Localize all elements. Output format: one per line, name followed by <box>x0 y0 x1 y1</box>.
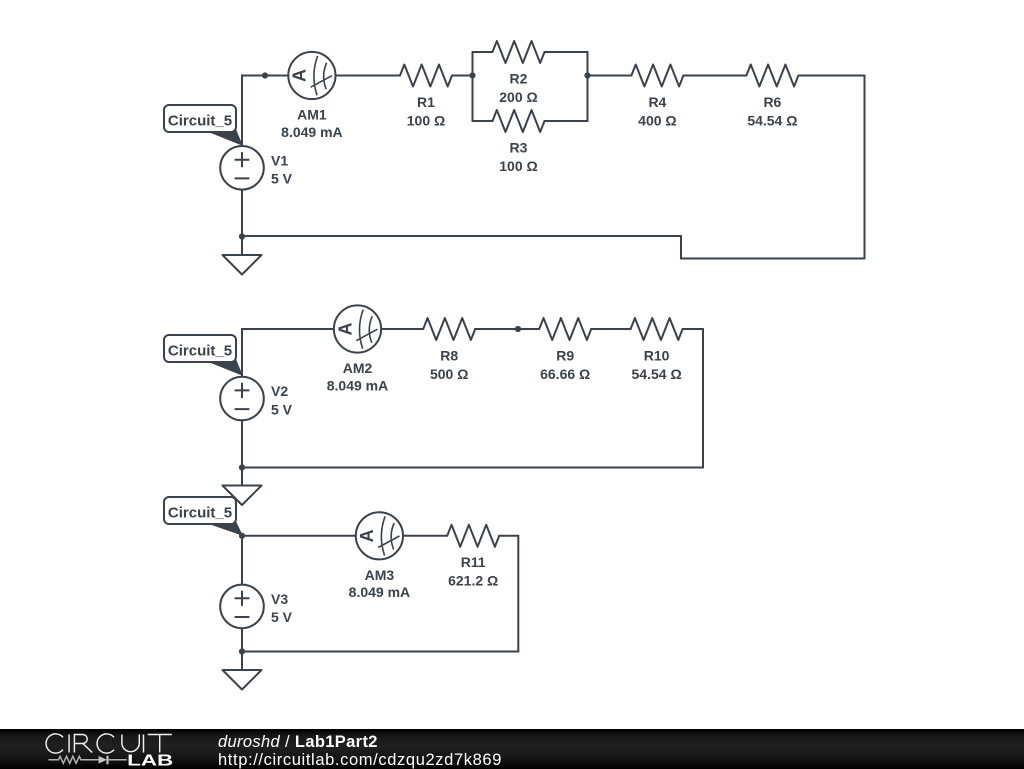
svg-text:54.54 Ω: 54.54 Ω <box>747 112 797 128</box>
svg-text:500 Ω: 500 Ω <box>430 366 468 382</box>
wire AM2 to R8 <box>382 328 423 330</box>
resistor R10 <box>631 318 683 340</box>
footer bar <box>0 729 1024 769</box>
junction node Circuit_5 (c1) <box>262 72 268 78</box>
svg-text:621.2 Ω: 621.2 Ω <box>448 573 498 589</box>
wire R8 to R9 <box>475 328 539 330</box>
svg-text:Circuit_5: Circuit_5 <box>168 504 232 521</box>
logo word CIRCUIT (drawn) <box>46 733 172 752</box>
ground 2 <box>223 486 262 506</box>
svg-text:R11: R11 <box>461 554 486 570</box>
ground 1 <box>223 255 262 275</box>
junction node Circuit_5 (c3) <box>239 533 245 539</box>
svg-text:AM1: AM1 <box>297 107 327 123</box>
svg-text:R3: R3 <box>510 139 528 155</box>
CircuitLab logo <box>0 729 200 769</box>
wire left branch vertical <box>472 52 474 121</box>
svg-text:R8: R8 <box>440 347 458 363</box>
wire R2 right <box>545 51 588 53</box>
wire right side down (c3) <box>517 536 519 652</box>
wire node to AM3 <box>242 535 356 537</box>
wire AM1 to R1 <box>336 75 400 77</box>
wire bottom return to V1 <box>242 235 681 237</box>
svg-text:AM2: AM2 <box>343 360 373 376</box>
ground 3 <box>223 670 262 690</box>
svg-text:A: A <box>335 323 355 336</box>
svg-text:R10: R10 <box>644 347 670 363</box>
svg-text:200 Ω: 200 Ω <box>499 89 537 105</box>
wire R9 to R10 <box>591 328 630 330</box>
voltage source V1 <box>220 146 264 190</box>
junction left parallel node <box>469 72 475 78</box>
voltage source V2 <box>220 377 264 421</box>
svg-text:R9: R9 <box>556 347 574 363</box>
resistor R2 <box>493 41 545 63</box>
svg-text:400 Ω: 400 Ω <box>638 112 676 128</box>
svg-text:100 Ω: 100 Ω <box>499 158 537 174</box>
net flag Circuit_5 (1) <box>164 105 242 145</box>
wire V2 top to AM2 <box>242 329 334 377</box>
wire right side down (c2) <box>702 329 704 468</box>
resistor R3 <box>493 110 545 132</box>
wire R10 to right corner <box>683 328 703 330</box>
svg-text:LAB: LAB <box>127 752 173 768</box>
svg-text:A: A <box>290 69 310 82</box>
ammeter AM3 <box>356 512 403 559</box>
wire R6 to right corner <box>798 75 864 77</box>
svg-text:54.54 Ω: 54.54 Ω <box>632 366 682 382</box>
net flag Circuit_5 (2) <box>164 335 242 375</box>
ammeter AM1 <box>288 52 335 99</box>
wire R11 to right corner <box>499 535 518 537</box>
svg-text:100 Ω: 100 Ω <box>407 112 445 128</box>
wire to R3 left <box>473 120 493 122</box>
wire right side down <box>864 76 866 259</box>
wire to R2 left <box>473 51 493 53</box>
voltage source V3 <box>220 585 264 629</box>
svg-text:R1: R1 <box>417 94 435 110</box>
ammeter AM2 <box>334 305 381 352</box>
resistor R9 <box>539 318 591 340</box>
net flag Circuit_5 (3) <box>164 497 242 535</box>
wire R4 to R6 <box>683 75 746 77</box>
svg-text:V2: V2 <box>271 383 288 399</box>
resistor R1 <box>400 65 452 87</box>
wire R1 to parallel node <box>452 75 473 77</box>
junction R8-R9 node <box>515 326 521 332</box>
wire R3 right <box>545 120 588 122</box>
logo resistor-diode symbol <box>48 756 126 763</box>
wire bottom return (c2) <box>242 467 703 469</box>
svg-text:AM3: AM3 <box>365 567 395 583</box>
svg-text:Circuit_5: Circuit_5 <box>168 342 232 359</box>
svg-text:66.66 Ω: 66.66 Ω <box>540 366 590 382</box>
svg-text:V3: V3 <box>271 591 288 607</box>
svg-text:8.049 mA: 8.049 mA <box>327 377 388 393</box>
wire bottom return (c3) <box>242 651 518 653</box>
wire bottom jog up <box>680 236 682 259</box>
wire V3 bottom to ground <box>241 628 243 670</box>
footer url <box>218 750 502 769</box>
svg-text:R4: R4 <box>648 94 666 110</box>
wire V2 bottom to ground <box>241 421 243 486</box>
svg-text:8.049 mA: 8.049 mA <box>349 584 410 600</box>
junction V2 ground node <box>239 464 245 470</box>
junction right parallel node <box>584 72 590 78</box>
svg-text:A: A <box>357 529 377 542</box>
svg-text:5 V: 5 V <box>271 401 293 417</box>
wire V1 bottom to ground <box>241 190 243 255</box>
resistor R8 <box>423 318 475 340</box>
wire right branch vertical <box>587 52 589 121</box>
svg-text:V1: V1 <box>271 152 288 168</box>
wire node to R4 <box>588 75 632 77</box>
diode <box>99 756 107 764</box>
resistor R11 <box>447 525 499 547</box>
wire V1 top to AM1 <box>242 76 288 147</box>
svg-text:R6: R6 <box>763 94 781 110</box>
svg-text:8.049 mA: 8.049 mA <box>281 124 342 140</box>
wire AM3 to R11 <box>404 535 447 537</box>
wire bottom right segment <box>681 258 865 260</box>
junction V1 ground node <box>239 233 245 239</box>
svg-text:R2: R2 <box>510 70 528 86</box>
svg-text:Circuit_5: Circuit_5 <box>168 112 232 129</box>
wire node to V3 top <box>241 536 243 585</box>
footer title <box>218 732 378 751</box>
svg-text:5 V: 5 V <box>271 609 293 625</box>
junction V3 ground node <box>239 648 245 654</box>
resistor R4 <box>631 65 683 87</box>
svg-text:5 V: 5 V <box>271 171 293 187</box>
resistor R6 <box>746 65 798 87</box>
